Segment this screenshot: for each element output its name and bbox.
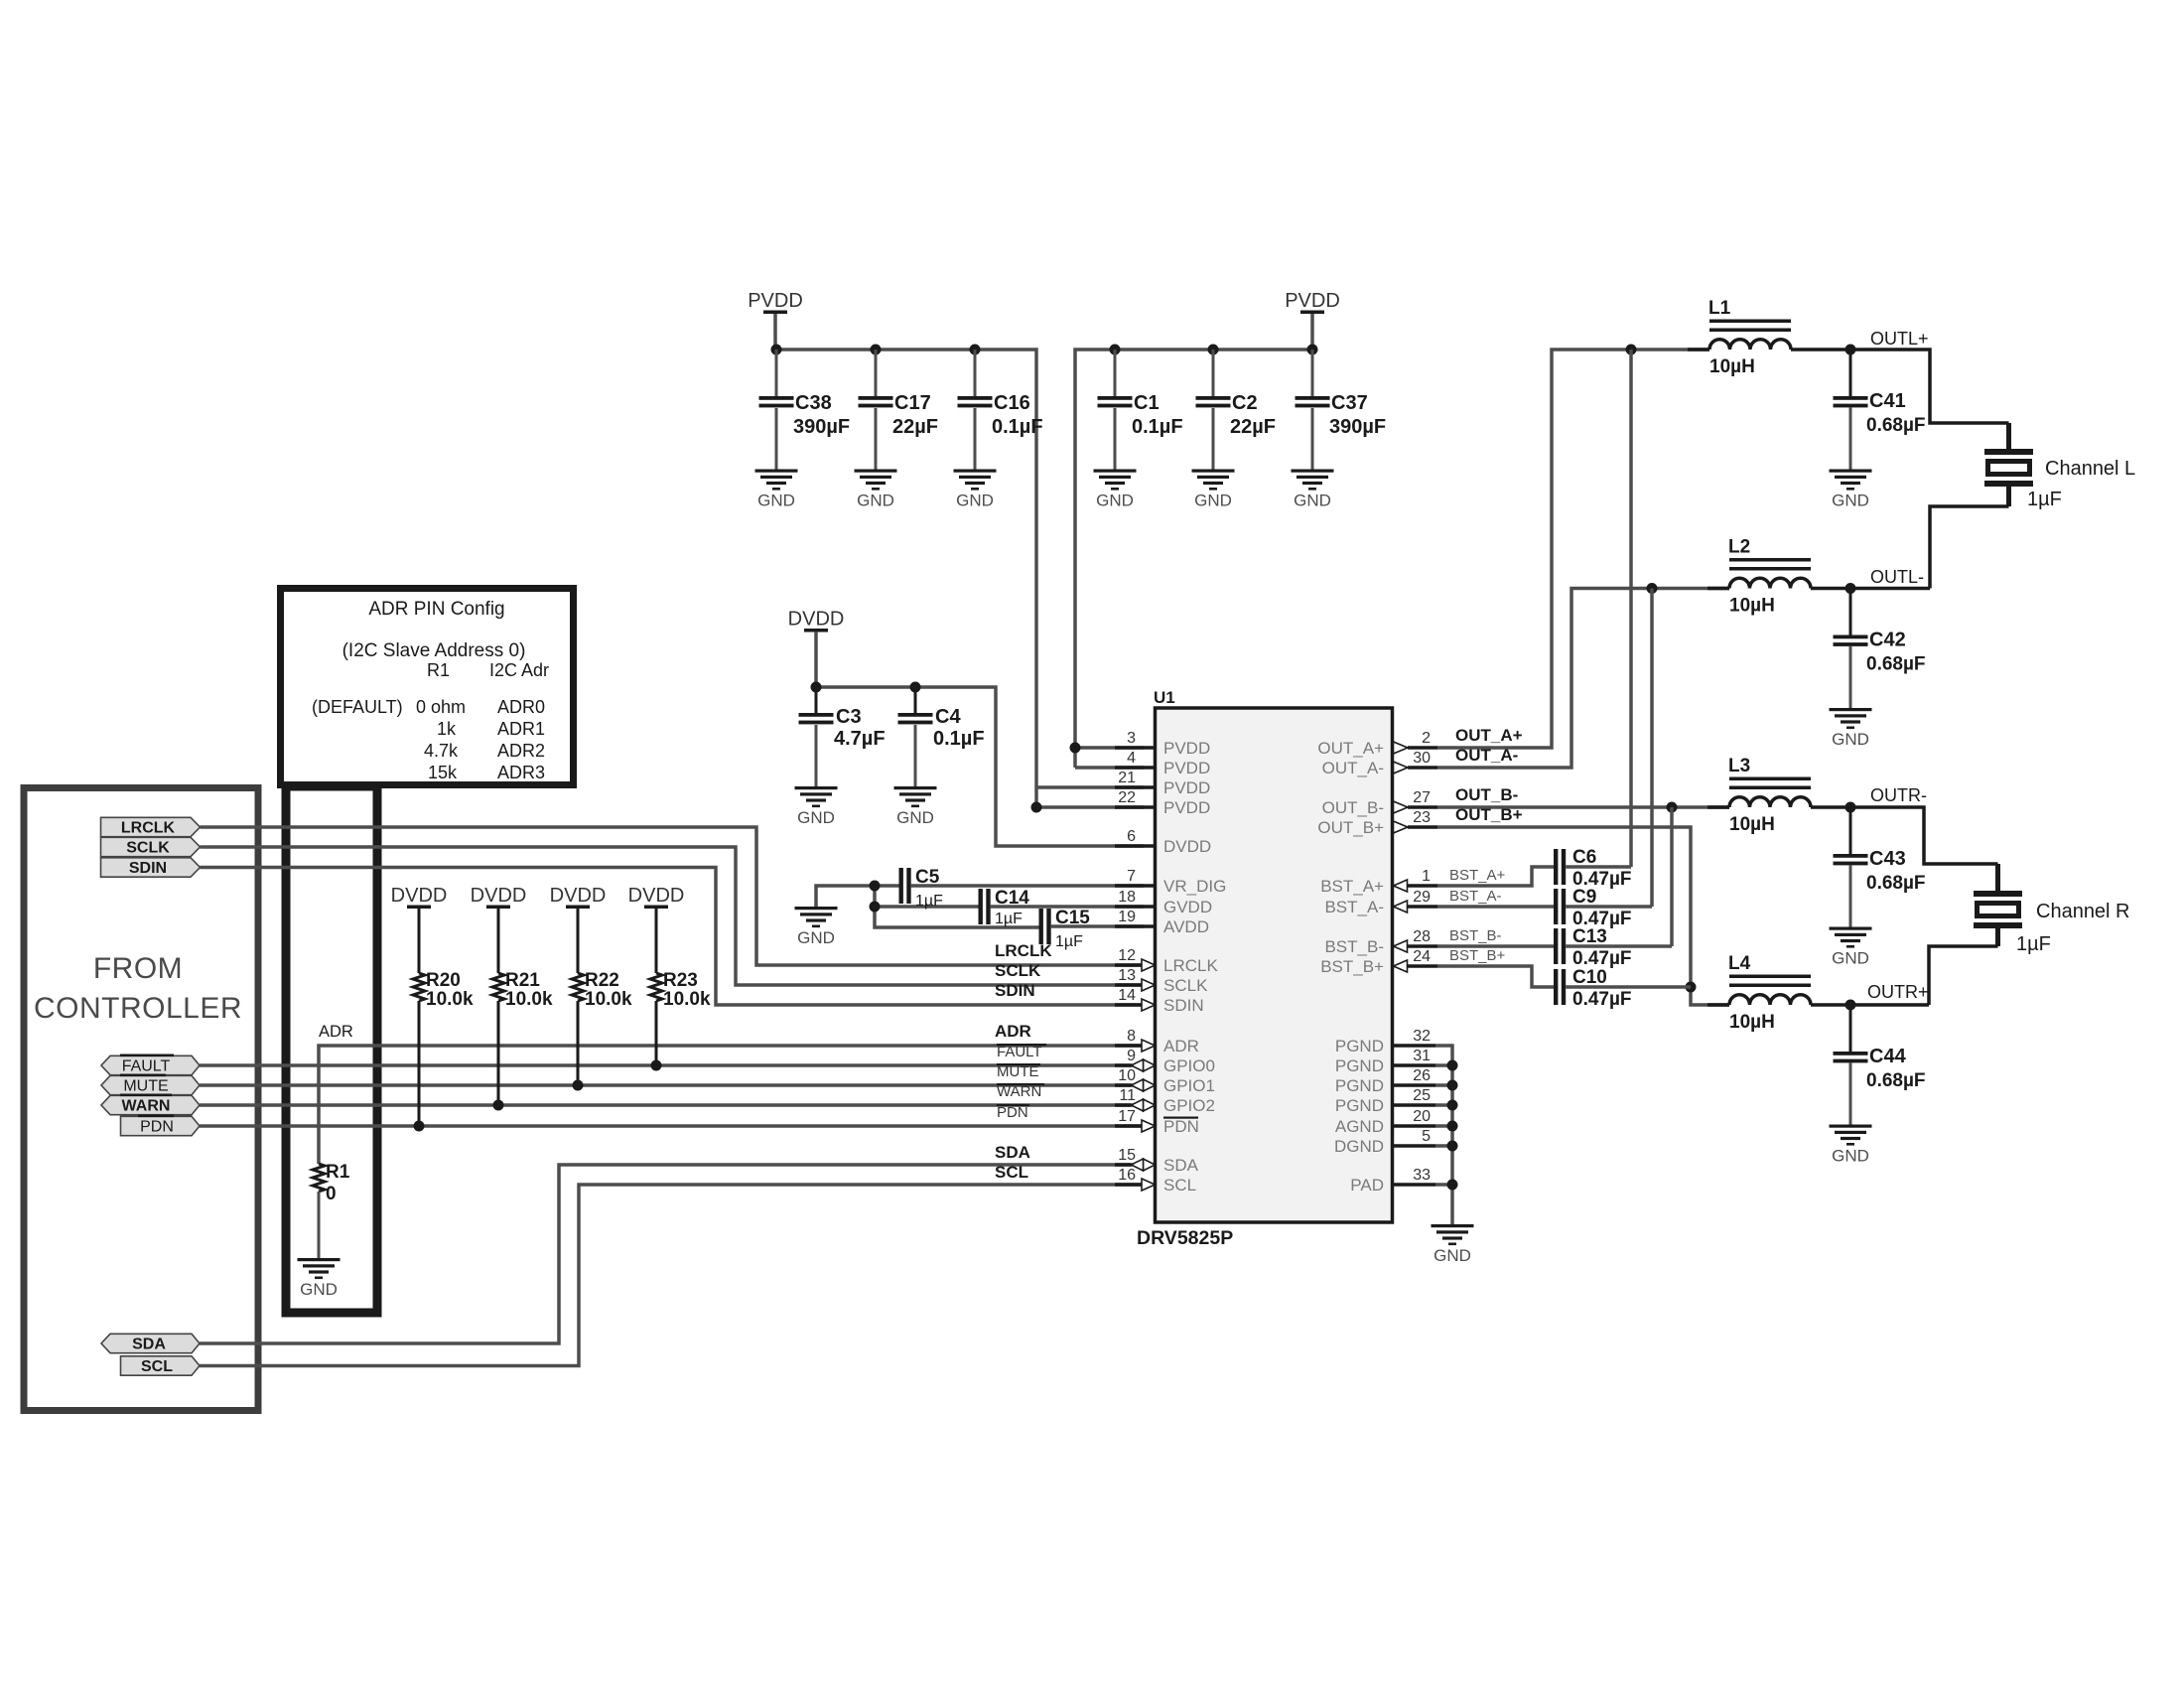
svg-text:DVDD: DVDD — [1163, 837, 1211, 856]
wire DVDD to R21 — [497, 909, 500, 973]
svg-text:ADR: ADR — [319, 1023, 353, 1041]
wire OUTR- to Channel R — [1850, 807, 1998, 864]
pin 18 GVDD — [1115, 889, 1212, 916]
svg-text:0.68µF: 0.68µF — [1866, 873, 1926, 894]
junction PGND bus 1154 — [1447, 1141, 1458, 1152]
svg-text:C16: C16 — [994, 392, 1030, 414]
wire BST_B+ — [1437, 966, 1556, 987]
svg-text:R20: R20 — [426, 970, 461, 991]
ground at C37 — [1292, 470, 1334, 510]
wire OUTL+ to Channel L — [1850, 350, 2009, 423]
svg-text:17: 17 — [1118, 1108, 1136, 1125]
wire Channel R return — [1995, 928, 2000, 946]
op-amp U1 DRV5825P body — [1156, 708, 1393, 1222]
pin 2 OUT_A+ — [1317, 730, 1437, 758]
svg-text:GVDD: GVDD — [1163, 898, 1212, 916]
svg-text:PDN: PDN — [1163, 1117, 1199, 1136]
junction C14 — [870, 902, 881, 913]
svg-text:PVDD: PVDD — [1285, 290, 1340, 312]
svg-text:GND: GND — [757, 492, 795, 510]
node WARN flag — [101, 1094, 200, 1115]
svg-text:PDN: PDN — [140, 1119, 174, 1136]
speaker Channel R 1µF — [1974, 891, 2130, 955]
svg-text:BST_A-: BST_A- — [1449, 888, 1502, 905]
svg-text:23: 23 — [1413, 809, 1431, 826]
svg-text:390µF: 390µF — [1329, 416, 1386, 438]
pin 5 DGND — [1334, 1128, 1435, 1156]
svg-text:GND: GND — [1832, 1147, 1869, 1166]
svg-text:OUTR-: OUTR- — [1870, 785, 1927, 805]
pin 31 PGND — [1335, 1048, 1435, 1075]
wire PGND bus — [1435, 1046, 1452, 1224]
node PDN label at IC — [997, 1104, 1029, 1121]
svg-text:GND: GND — [1832, 949, 1869, 968]
junction PGND bus 1134 — [1447, 1121, 1458, 1132]
svg-text:1µF: 1µF — [2027, 489, 2062, 510]
node OUTR- — [1845, 802, 1856, 813]
svg-text:(I2C Slave Address 0): (I2C Slave Address 0) — [342, 640, 526, 661]
power DVDD for R21 — [471, 885, 527, 909]
ADR R1 leg box — [286, 786, 377, 1313]
svg-text:ADR1: ADR1 — [497, 719, 545, 739]
svg-text:25: 25 — [1413, 1087, 1431, 1104]
ground at C42 — [1830, 708, 1872, 749]
capacitor C4 0.1µF — [898, 687, 985, 786]
junction PVDD C37 — [1307, 345, 1318, 355]
svg-text:10.0k: 10.0k — [663, 989, 711, 1010]
svg-text:CONTROLLER: CONTROLLER — [34, 992, 242, 1025]
pin 27 OUT_B- — [1322, 789, 1437, 817]
wire OUT_A- — [1437, 589, 1729, 769]
svg-text:PGND: PGND — [1335, 1096, 1384, 1115]
svg-text:(DEFAULT): (DEFAULT) — [312, 697, 403, 717]
svg-text:R1: R1 — [427, 660, 450, 680]
capacitor C42 0.68µF — [1834, 589, 1926, 709]
svg-text:C10: C10 — [1572, 967, 1607, 988]
svg-text:SDIN: SDIN — [129, 860, 167, 877]
capacitor C43 0.68µF — [1834, 807, 1926, 927]
junction PVDD pin 3 — [1070, 743, 1081, 754]
svg-text:GND: GND — [1832, 730, 1869, 749]
svg-text:BST_A-: BST_A- — [1324, 898, 1384, 916]
svg-text:GND: GND — [896, 808, 934, 827]
svg-text:PDN: PDN — [997, 1104, 1028, 1121]
svg-text:BST_B-: BST_B- — [1449, 927, 1502, 944]
junction PGND bus 1073 — [1447, 1060, 1458, 1071]
svg-text:10.0k: 10.0k — [585, 989, 632, 1010]
svg-text:GND: GND — [1433, 1246, 1471, 1265]
capacitor C9 0.47µF — [1554, 589, 1652, 930]
svg-text:OUT_A-: OUT_A- — [1322, 759, 1384, 777]
capacitor C17 22µF — [859, 350, 939, 470]
power DVDD for R22 — [550, 885, 607, 909]
capacitor C16 0.1µF — [958, 350, 1043, 470]
svg-text:0.1µF: 0.1µF — [1132, 416, 1183, 438]
svg-text:10µH: 10µH — [1729, 814, 1775, 835]
svg-text:SDA: SDA — [132, 1336, 166, 1353]
power DVDD for R23 — [628, 885, 685, 909]
junction DVDD C3 — [811, 682, 822, 693]
svg-text:SCL: SCL — [995, 1163, 1028, 1182]
node MUTE flag — [101, 1074, 200, 1095]
svg-text:R23: R23 — [663, 970, 698, 991]
pin 26 PGND — [1335, 1067, 1435, 1095]
svg-text:GND: GND — [300, 1280, 338, 1299]
svg-text:C9: C9 — [1572, 887, 1596, 908]
svg-text:4.7k: 4.7k — [424, 741, 459, 761]
svg-text:0: 0 — [326, 1184, 337, 1204]
svg-text:C37: C37 — [1331, 392, 1368, 414]
wire OUTR+ node to return — [1850, 1003, 1929, 1007]
svg-text:OUT_B-: OUT_B- — [1455, 785, 1518, 804]
pin 28 BST_B- — [1324, 928, 1437, 956]
ground at R1 — [298, 1258, 341, 1299]
svg-text:6: 6 — [1127, 828, 1136, 845]
svg-text:SCL: SCL — [141, 1358, 173, 1375]
svg-text:SCLK: SCLK — [126, 840, 170, 857]
svg-text:13: 13 — [1118, 967, 1136, 984]
ground at C4 — [894, 786, 937, 827]
wire DVDD to R23 — [655, 909, 658, 973]
svg-text:32: 32 — [1413, 1028, 1431, 1045]
svg-text:GND: GND — [1832, 492, 1869, 510]
pin 10 GPIO1 — [1115, 1067, 1215, 1095]
svg-text:BST_B+: BST_B+ — [1449, 947, 1506, 964]
svg-text:ADR0: ADR0 — [497, 697, 545, 717]
svg-text:4.7µF: 4.7µF — [834, 728, 886, 750]
svg-text:PVDD: PVDD — [748, 290, 803, 312]
ground at C2 — [1192, 470, 1235, 510]
junction PVDD C1 — [1110, 345, 1121, 355]
wire ADR — [319, 1046, 1144, 1164]
svg-text:DVDD: DVDD — [788, 609, 845, 631]
capacitor C14 1µF — [979, 888, 1145, 927]
pin 33 PAD — [1350, 1167, 1435, 1195]
svg-text:C4: C4 — [935, 706, 961, 728]
svg-text:SCLK: SCLK — [995, 961, 1041, 980]
svg-text:ADR2: ADR2 — [497, 741, 545, 761]
svg-text:10.0k: 10.0k — [426, 989, 474, 1010]
svg-text:10: 10 — [1118, 1067, 1136, 1084]
svg-text:C41: C41 — [1869, 390, 1906, 412]
svg-text:GND: GND — [1294, 492, 1331, 510]
svg-text:R21: R21 — [505, 970, 540, 991]
svg-text:OUT_A+: OUT_A+ — [1317, 739, 1384, 758]
svg-text:LRCLK: LRCLK — [995, 941, 1052, 960]
node FAULT label at IC — [997, 1044, 1046, 1060]
svg-text:BST_A+: BST_A+ — [1449, 867, 1506, 884]
wire OUT_A+ — [1437, 350, 1709, 748]
pin 16 SCL — [1115, 1167, 1196, 1195]
node OUTR+ — [1845, 1000, 1856, 1011]
ground at C17 — [855, 470, 897, 510]
node OUTL+ — [1845, 345, 1856, 355]
pin 14 SDIN — [1115, 987, 1204, 1015]
svg-text:11: 11 — [1119, 1087, 1136, 1104]
svg-text:10µH: 10µH — [1729, 596, 1775, 617]
power PVDD right — [1285, 290, 1340, 314]
svg-text:C2: C2 — [1232, 392, 1258, 414]
wire BST_A- — [1437, 905, 1556, 909]
FROM CONTROLLER box — [24, 788, 258, 1411]
resistor R21 10.0k — [492, 970, 553, 1010]
ground at C5 — [795, 907, 838, 947]
svg-text:OUT_A+: OUT_A+ — [1455, 726, 1523, 745]
wire R21 down — [497, 1001, 500, 1105]
svg-text:OUTR+: OUTR+ — [1867, 982, 1929, 1002]
node FAULT flag — [101, 1055, 200, 1075]
svg-text:7: 7 — [1127, 868, 1136, 885]
svg-text:22: 22 — [1118, 789, 1136, 806]
svg-text:C14: C14 — [995, 888, 1029, 909]
wire OUTL- node to return — [1850, 587, 1930, 591]
resistor R23 10.0k — [650, 970, 711, 1010]
svg-text:22µF: 22µF — [892, 416, 938, 438]
svg-text:LRCLK: LRCLK — [121, 820, 176, 837]
svg-text:GND: GND — [797, 808, 835, 827]
svg-text:1k: 1k — [437, 719, 457, 739]
capacitor C10 0.47µF — [1554, 967, 1691, 1010]
svg-text:DVDD: DVDD — [471, 885, 527, 907]
svg-text:L1: L1 — [1708, 298, 1731, 319]
svg-text:4: 4 — [1127, 750, 1136, 767]
wire FAULT — [200, 1063, 1144, 1067]
node WARN label at IC — [997, 1083, 1044, 1100]
svg-text:31: 31 — [1413, 1048, 1431, 1064]
svg-text:2: 2 — [1422, 730, 1431, 747]
pin 15 SDA — [1115, 1147, 1199, 1175]
capacitor C5 1µF — [899, 867, 1145, 910]
wire PVDD pins 21 22 — [1036, 785, 1144, 789]
wire MUTE — [200, 1083, 1144, 1087]
resistor R22 10.0k — [572, 970, 632, 1010]
junction R20 — [414, 1121, 425, 1132]
junction C5 — [870, 881, 881, 892]
wire PVDD right bus — [1310, 314, 1314, 350]
svg-text:PVDD: PVDD — [1163, 798, 1210, 817]
svg-text:DVDD: DVDD — [628, 885, 685, 907]
svg-text:0.68µF: 0.68µF — [1866, 1070, 1926, 1091]
svg-text:1µF: 1µF — [2016, 933, 2051, 955]
pin 9 GPIO0 — [1115, 1048, 1215, 1075]
svg-text:MUTE: MUTE — [997, 1063, 1039, 1080]
svg-text:PGND: PGND — [1335, 1037, 1384, 1055]
svg-text:WARN: WARN — [997, 1083, 1041, 1100]
svg-text:15: 15 — [1118, 1147, 1136, 1164]
svg-text:ADR PIN Config: ADR PIN Config — [368, 599, 504, 620]
svg-text:0 ohm: 0 ohm — [416, 697, 466, 717]
svg-text:0.68µF: 0.68µF — [1866, 654, 1926, 675]
svg-text:10µH: 10µH — [1709, 356, 1755, 377]
pin 17 PDN — [1115, 1108, 1199, 1136]
svg-text:SCLK: SCLK — [1163, 976, 1208, 995]
svg-text:ADR: ADR — [1163, 1037, 1199, 1055]
inductor L1 10µH — [1688, 298, 1850, 377]
svg-text:0.47µF: 0.47µF — [1572, 989, 1632, 1010]
svg-text:L3: L3 — [1728, 756, 1750, 776]
pin 6 DVDD — [1115, 828, 1211, 856]
ADR PIN Config box — [281, 589, 574, 785]
svg-text:GND: GND — [1194, 492, 1232, 510]
svg-text:C5: C5 — [915, 867, 940, 888]
wire SDIN — [201, 868, 1145, 1006]
node SCL flag — [121, 1356, 201, 1375]
svg-text:ADR3: ADR3 — [497, 763, 545, 782]
junction R22 — [573, 1080, 584, 1091]
wire PDN — [200, 1124, 1144, 1128]
svg-text:PVDD: PVDD — [1163, 739, 1210, 758]
power DVDD main — [788, 609, 845, 633]
svg-text:DGND: DGND — [1334, 1137, 1384, 1156]
svg-text:DVDD: DVDD — [550, 885, 607, 907]
svg-text:OUTL-: OUTL- — [1870, 567, 1924, 587]
power PVDD left — [748, 290, 803, 314]
ground at C38 — [755, 470, 798, 510]
svg-text:28: 28 — [1413, 928, 1431, 945]
junction DVDD C4 — [910, 682, 921, 693]
ground at C41 — [1830, 470, 1872, 510]
capacitor C2 22µF — [1196, 350, 1277, 470]
wire WARN — [200, 1103, 1144, 1107]
wire OUT_B+ — [1437, 827, 1729, 1005]
pin 12 LRCLK — [1115, 947, 1218, 975]
speaker Channel L 1µF — [1984, 449, 2135, 510]
node LRCLK flag — [101, 817, 201, 836]
junction PVDD pin 22 — [1031, 802, 1042, 813]
wire R23 down — [655, 1001, 658, 1065]
node SCLK flag — [101, 837, 201, 856]
svg-text:SDIN: SDIN — [1163, 996, 1204, 1015]
inductor L4 10µH — [1707, 953, 1850, 1033]
svg-text:16: 16 — [1118, 1167, 1136, 1184]
svg-text:1µF: 1µF — [995, 911, 1023, 927]
svg-text:OUTL+: OUTL+ — [1870, 329, 1929, 349]
svg-text:10µH: 10µH — [1729, 1012, 1775, 1033]
junction PGND bus 1193 — [1447, 1180, 1458, 1191]
svg-text:GND: GND — [857, 492, 894, 510]
svg-text:SDIN: SDIN — [995, 981, 1035, 1000]
wire PVDD pins 3 4 — [1075, 746, 1144, 750]
svg-text:SDA: SDA — [995, 1143, 1030, 1162]
ground at PAD — [1432, 1224, 1474, 1265]
wire BST_B- — [1437, 944, 1556, 948]
svg-text:FAULT: FAULT — [122, 1058, 171, 1075]
node SDA flag — [101, 1334, 200, 1352]
capacitor C13 0.47µF — [1554, 807, 1672, 969]
svg-text:14: 14 — [1118, 987, 1136, 1004]
svg-text:GND: GND — [1096, 492, 1134, 510]
wire LRCLK — [201, 827, 1145, 965]
wire SCLK — [201, 847, 1145, 985]
svg-text:9: 9 — [1127, 1048, 1136, 1064]
svg-text:C17: C17 — [894, 392, 931, 414]
svg-text:26: 26 — [1413, 1067, 1431, 1084]
node PDN flag — [121, 1115, 201, 1136]
pin 8 ADR — [1115, 1028, 1199, 1055]
junction OUT_B+ C10 tap — [1686, 982, 1697, 993]
junction OUT_B- C13 tap — [1667, 802, 1678, 813]
svg-text:WARN: WARN — [122, 1098, 171, 1115]
svg-text:C13: C13 — [1572, 926, 1607, 947]
junction PVDD C16 — [970, 345, 981, 355]
svg-text:10.0k: 10.0k — [505, 989, 553, 1010]
node OUTL- — [1845, 583, 1856, 594]
svg-text:GND: GND — [956, 492, 994, 510]
svg-text:DVDD: DVDD — [391, 885, 448, 907]
power DVDD for R20 — [391, 885, 448, 909]
svg-text:FAULT: FAULT — [997, 1044, 1042, 1060]
capacitor C15 1µF — [1039, 908, 1145, 950]
wire R1 to ground — [318, 1192, 321, 1258]
svg-text:GPIO2: GPIO2 — [1163, 1096, 1215, 1115]
svg-text:27: 27 — [1413, 789, 1431, 806]
svg-text:C42: C42 — [1869, 630, 1906, 651]
ground at C16 — [954, 470, 997, 510]
wire DVDD to R20 — [418, 909, 421, 973]
svg-text:20: 20 — [1413, 1108, 1431, 1125]
svg-text:GPIO0: GPIO0 — [1163, 1056, 1215, 1075]
svg-text:C44: C44 — [1869, 1046, 1907, 1067]
svg-text:L2: L2 — [1728, 537, 1750, 558]
svg-text:3: 3 — [1127, 730, 1136, 747]
svg-text:DRV5825P: DRV5825P — [1137, 1227, 1233, 1249]
svg-text:33: 33 — [1413, 1167, 1431, 1184]
pin 19 AVDD — [1115, 909, 1209, 936]
svg-text:Channel R: Channel R — [2036, 901, 2130, 922]
svg-text:22µF: 22µF — [1230, 416, 1276, 438]
capacitor C37 390µF — [1296, 350, 1387, 470]
svg-text:BST_B-: BST_B- — [1324, 937, 1384, 956]
junction OUT_A- C9 tap — [1647, 583, 1658, 594]
pin 13 SCLK — [1115, 967, 1208, 995]
svg-text:C1: C1 — [1134, 392, 1160, 414]
junction R21 — [493, 1100, 504, 1111]
node SDIN flag — [101, 858, 201, 877]
svg-text:0.1µF: 0.1µF — [992, 416, 1043, 438]
svg-text:BST_A+: BST_A+ — [1320, 877, 1384, 896]
capacitor C38 390µF — [759, 350, 851, 470]
wire SCL — [200, 1185, 1144, 1366]
svg-text:SDA: SDA — [1163, 1156, 1199, 1175]
pin 23 OUT_B+ — [1317, 809, 1437, 837]
svg-text:C15: C15 — [1055, 908, 1090, 928]
svg-text:PVDD: PVDD — [1163, 778, 1210, 797]
svg-text:18: 18 — [1118, 889, 1136, 906]
junction PVDD C17 — [871, 345, 882, 355]
pin 25 PGND — [1335, 1087, 1435, 1115]
wire Channel L return — [2006, 487, 2011, 506]
svg-text:OUT_B-: OUT_B- — [1322, 798, 1384, 817]
wire DVDD bus — [814, 632, 818, 687]
inductor L3 10µH — [1707, 756, 1850, 835]
pin 21 PVDD — [1115, 770, 1210, 797]
node MUTE label at IC — [997, 1063, 1040, 1080]
svg-text:MUTE: MUTE — [123, 1078, 168, 1095]
svg-text:19: 19 — [1118, 909, 1136, 925]
svg-text:U1: U1 — [1154, 688, 1175, 707]
svg-text:AGND: AGND — [1335, 1117, 1384, 1136]
wire R22 down — [577, 1001, 580, 1085]
svg-text:PGND: PGND — [1335, 1076, 1384, 1095]
svg-text:C43: C43 — [1869, 848, 1906, 870]
svg-text:5: 5 — [1422, 1128, 1431, 1145]
svg-text:1µF: 1µF — [915, 893, 943, 910]
svg-text:0.47µF: 0.47µF — [1572, 948, 1632, 969]
resistor R1 — [313, 1162, 350, 1204]
wire PVDD left bus — [773, 314, 777, 350]
capacitor C41 0.68µF — [1834, 350, 1926, 470]
svg-text:PAD: PAD — [1350, 1176, 1384, 1195]
